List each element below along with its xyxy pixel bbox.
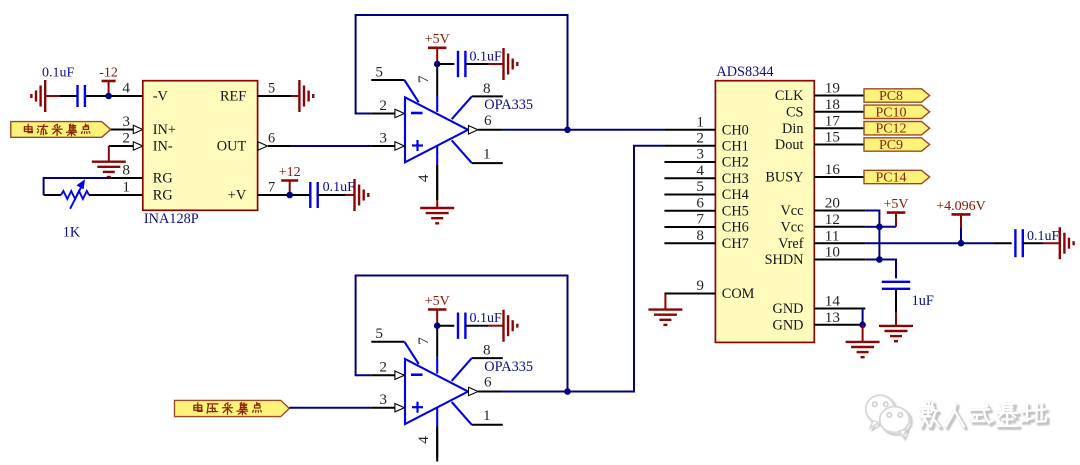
svg-text:1: 1 xyxy=(483,145,491,162)
pin 14 U2 GND xyxy=(814,308,865,310)
svg-text:1K: 1K xyxy=(63,225,81,241)
svg-text:5: 5 xyxy=(268,81,275,97)
svg-text:4: 4 xyxy=(415,436,432,444)
pin 3 arrow IN+ xyxy=(133,125,143,133)
pin 7 U4 V+ xyxy=(436,357,438,373)
svg-text:BUSY: BUSY xyxy=(765,170,803,186)
wire C1 to -12 junction xyxy=(85,95,143,97)
svg-text:4: 4 xyxy=(696,162,704,179)
svg-text:6: 6 xyxy=(484,112,492,129)
svg-text:ADS8344: ADS8344 xyxy=(716,64,773,80)
pin 7 U3 V+ xyxy=(436,96,438,112)
pin 11 U2 Vref xyxy=(814,242,865,244)
junction +5V U4 xyxy=(434,322,441,329)
svg-text:PC8: PC8 xyxy=(879,89,903,104)
ground GND bypass U4 xyxy=(502,310,504,342)
svg-text:OUT: OUT xyxy=(217,139,247,155)
svg-text:RG: RG xyxy=(153,171,173,187)
svg-text:0.1uF: 0.1uF xyxy=(470,50,503,65)
wire GND pin14 down xyxy=(862,309,864,325)
wire cap to ground U3 xyxy=(465,63,488,65)
pin 6 OUT stub and arrow xyxy=(268,145,292,147)
pin 2 U3 inverting input xyxy=(371,113,394,115)
svg-text:4: 4 xyxy=(122,80,130,97)
ground GND bypass U3 xyxy=(502,48,504,80)
ground GND at Vref cap xyxy=(1059,227,1061,259)
ground GND at REF xyxy=(298,80,300,112)
ground GND U3 V- xyxy=(420,207,454,209)
capacitor C6 0.1uF (Vref) xyxy=(1014,229,1016,257)
pin 8 U4 trim xyxy=(472,357,503,359)
pin 7 U2 CH6 xyxy=(664,226,715,228)
svg-text:7: 7 xyxy=(268,180,275,196)
svg-text:IN-: IN- xyxy=(153,139,173,155)
pin 8 U3 trim xyxy=(472,95,503,97)
svg-text:2: 2 xyxy=(379,97,387,114)
wire feedback loop U4 xyxy=(356,276,568,392)
svg-text:CH5: CH5 xyxy=(722,203,749,219)
pin 8 RG stub xyxy=(109,177,143,179)
svg-text:-12: -12 xyxy=(99,65,118,80)
wire IN- to ground xyxy=(109,145,134,147)
svg-text:OPA335: OPA335 xyxy=(484,97,533,113)
pin 2 U2 CH1 xyxy=(664,145,715,147)
svg-text:PC12: PC12 xyxy=(875,122,906,137)
net flag PC14 xyxy=(864,170,930,183)
svg-text:RG: RG xyxy=(153,188,173,204)
junction node -12/-V xyxy=(105,93,112,100)
pin 4 U4 V- xyxy=(436,408,438,427)
wire SHDN to 1uF xyxy=(879,260,896,279)
net flag PC8 xyxy=(864,89,930,102)
svg-text:1: 1 xyxy=(696,113,704,130)
svg-text:19: 19 xyxy=(825,80,840,97)
svg-text:1uF: 1uF xyxy=(912,293,934,309)
ground GND at 1uF xyxy=(879,325,913,327)
pin 20 U2 Vcc xyxy=(814,210,865,212)
pin 7 +V stub xyxy=(258,194,310,196)
svg-text:10: 10 xyxy=(825,244,841,261)
pin 6 U3 output xyxy=(469,126,479,134)
pin 3 U2 CH2 xyxy=(664,161,715,163)
power +5V U4 xyxy=(428,308,447,311)
pin 6 U2 CH5 xyxy=(664,210,715,212)
svg-text:CH3: CH3 xyxy=(722,171,749,187)
wire flag to IN+ xyxy=(111,129,134,131)
svg-text:9: 9 xyxy=(696,277,704,294)
pin 3 U4 non-inverting input xyxy=(371,407,394,409)
capacitor 0.1uF U3 bypass xyxy=(437,63,454,65)
ground GND at COM xyxy=(664,294,666,310)
svg-text:PC14: PC14 xyxy=(875,171,906,186)
svg-text:1: 1 xyxy=(122,179,130,196)
pin 1 RG stub xyxy=(89,194,143,196)
svg-text:12: 12 xyxy=(825,211,840,228)
wire OUT to opamp pin3 xyxy=(292,145,372,147)
junction GND pins xyxy=(859,322,866,329)
pin 12 U2 Vcc xyxy=(814,226,865,228)
svg-text:6: 6 xyxy=(268,131,275,147)
ground GND at pins 13/14 xyxy=(846,341,880,343)
pin 6 U4 output xyxy=(469,387,479,395)
svg-text:COM: COM xyxy=(722,286,755,302)
svg-text:0.1uF: 0.1uF xyxy=(323,180,356,195)
ADC U2 ADS8344 body xyxy=(715,81,814,343)
svg-text:3: 3 xyxy=(379,130,387,147)
svg-text:8: 8 xyxy=(483,342,491,359)
ground GND far-left (0.1uF cap) xyxy=(60,95,77,97)
capacitor C2 0.1uF (INA +V) xyxy=(309,182,311,208)
capacitor C5 1uF xyxy=(882,281,910,283)
svg-text:3: 3 xyxy=(696,146,704,163)
pin 19 U2 CLK xyxy=(814,95,865,97)
junction U3 output/feedback xyxy=(564,127,571,134)
svg-text:Vcc: Vcc xyxy=(780,219,803,235)
svg-text:+V: +V xyxy=(228,188,247,204)
svg-text:+5V: +5V xyxy=(425,32,450,47)
svg-text:OPA335: OPA335 xyxy=(484,359,533,375)
wire U3 pin4 to ground xyxy=(436,165,438,200)
svg-text:CH1: CH1 xyxy=(722,138,749,154)
wire Vref net xyxy=(865,242,995,244)
svg-text:7: 7 xyxy=(415,337,432,345)
net flag PC10 xyxy=(864,105,930,118)
net flag PC9 xyxy=(864,138,930,151)
svg-text:11: 11 xyxy=(825,227,840,244)
net flag 电流采集点 xyxy=(11,122,111,138)
junction +5V U3 xyxy=(434,61,441,68)
svg-text:0.1uF: 0.1uF xyxy=(1027,229,1060,244)
pin 5 U4 trim xyxy=(371,341,404,343)
svg-text:3: 3 xyxy=(122,113,130,130)
svg-text:2: 2 xyxy=(696,129,704,146)
pin 4 U2 CH3 xyxy=(664,177,715,179)
pin 15 U2 Dout xyxy=(814,144,865,146)
wire flag to U4 pin3 xyxy=(289,407,371,409)
pin 16 U2 BUSY xyxy=(814,176,865,178)
svg-text:6: 6 xyxy=(696,194,704,211)
svg-text:0.1uF: 0.1uF xyxy=(470,311,503,326)
svg-text:17: 17 xyxy=(825,112,841,129)
wire Vcc pin12 to rail xyxy=(865,226,879,228)
svg-text:18: 18 xyxy=(825,96,841,113)
svg-text:8: 8 xyxy=(122,162,130,179)
svg-text:IN+: IN+ xyxy=(153,122,176,138)
pin 4 U3 V- xyxy=(436,146,438,165)
svg-text:15: 15 xyxy=(825,129,840,146)
pin 1 U4 trim xyxy=(472,424,503,426)
wire cap to ground U4 xyxy=(465,325,488,327)
pin 18 U2 CS xyxy=(814,111,865,113)
svg-text:Dout: Dout xyxy=(775,137,804,153)
svg-text:1: 1 xyxy=(483,407,491,424)
svg-text:-V: -V xyxy=(153,89,169,105)
svg-text:SHDN: SHDN xyxy=(765,252,804,268)
svg-text:CH6: CH6 xyxy=(722,220,749,236)
pin 1 U3 trim xyxy=(472,162,503,164)
svg-text:GND: GND xyxy=(773,317,804,333)
svg-text:CH2: CH2 xyxy=(722,155,749,171)
pin 5 U2 CH4 xyxy=(664,194,715,196)
svg-text:5: 5 xyxy=(375,325,383,342)
wire U4 output to ADS CH1 xyxy=(503,146,665,392)
pin 5 REF stub xyxy=(258,95,292,97)
wire feedback loop U3 xyxy=(356,15,568,130)
svg-text:REF: REF xyxy=(220,89,246,105)
svg-text:PC9: PC9 xyxy=(879,138,903,153)
pin 17 U2 Din xyxy=(814,127,865,129)
op-amp U3 OPA335 triangle xyxy=(405,97,468,162)
power +5V (ADS) xyxy=(879,226,896,228)
pin 1 U2 CH0 xyxy=(664,129,715,131)
power +4.096V xyxy=(952,213,971,216)
wire potentiometer loop xyxy=(44,178,110,195)
svg-text:INA128P: INA128P xyxy=(144,211,199,227)
svg-text:+5V: +5V xyxy=(883,197,908,212)
junction Vref/+4.096V xyxy=(958,240,965,247)
svg-text:8: 8 xyxy=(483,80,491,97)
svg-text:Din: Din xyxy=(782,121,803,137)
svg-text:6: 6 xyxy=(484,374,492,391)
junction node +V/+12 xyxy=(286,192,293,199)
power +12 xyxy=(281,179,298,182)
svg-text:13: 13 xyxy=(825,309,840,326)
svg-text:Vcc: Vcc xyxy=(780,203,803,219)
pin 2 U4 inverting input xyxy=(371,374,394,376)
svg-text:5: 5 xyxy=(375,63,383,80)
ground GND at IN- xyxy=(92,160,126,162)
pin 2 arrow IN- xyxy=(133,142,143,150)
wire U3 output to ADS CH0 xyxy=(503,129,665,131)
svg-text:3: 3 xyxy=(379,391,387,408)
svg-text:16: 16 xyxy=(825,161,841,178)
pin 13 U2 GND xyxy=(814,324,865,326)
wire SHDN pin10 xyxy=(865,259,879,261)
net flag PC12 xyxy=(864,122,930,135)
wire U4 pin4 down xyxy=(436,427,438,459)
pin 5 U3 trim xyxy=(371,79,404,81)
svg-text:CLK: CLK xyxy=(775,88,804,104)
op-amp U1 INA128P body xyxy=(143,81,258,211)
svg-text:4: 4 xyxy=(415,174,432,182)
net flag 电压采集点 xyxy=(175,400,290,416)
svg-text:PC10: PC10 xyxy=(875,105,906,120)
svg-text:7: 7 xyxy=(415,75,432,83)
capacitor C1 0.1uF (INA -V supply) xyxy=(76,85,78,107)
wire C6 to ground xyxy=(1023,242,1043,244)
svg-text:20: 20 xyxy=(825,195,841,212)
op-amp U4 OPA335 triangle xyxy=(405,359,468,424)
svg-text:8: 8 xyxy=(696,227,704,244)
svg-text:7: 7 xyxy=(696,211,704,228)
svg-text:CS: CS xyxy=(786,104,804,120)
pin 10 U2 SHDN xyxy=(814,259,865,261)
pin 3 U3 non-inverting input xyxy=(371,145,394,147)
ground GND at C2 xyxy=(353,179,355,211)
wire C2 to ground xyxy=(318,194,345,196)
power +5V U3 xyxy=(428,46,447,49)
wire GND13 to ground xyxy=(862,325,864,342)
wire 1uF to ground xyxy=(895,289,897,312)
svg-text:14: 14 xyxy=(825,293,841,310)
junction Vcc pin12 xyxy=(876,224,883,231)
junction U4 output/feedback xyxy=(564,388,571,395)
svg-text:CH4: CH4 xyxy=(722,187,749,203)
svg-text:5: 5 xyxy=(696,178,704,195)
svg-text:+12: +12 xyxy=(279,165,301,180)
svg-text:CH0: CH0 xyxy=(722,122,749,138)
junction SHDN pin10 xyxy=(876,256,883,263)
svg-text:CH7: CH7 xyxy=(722,236,749,252)
capacitor 0.1uF U4 bypass xyxy=(437,325,454,327)
svg-text:2: 2 xyxy=(379,359,387,376)
svg-text:GND: GND xyxy=(773,301,804,317)
svg-text:2: 2 xyxy=(122,130,130,147)
svg-text:0.1uF: 0.1uF xyxy=(42,66,75,81)
svg-text:+5V: +5V xyxy=(425,294,450,309)
pin 9 U2 COM xyxy=(664,293,715,295)
resistor R1 1K potentiometer xyxy=(61,191,89,199)
wire Vcc pin20 to +5V rail xyxy=(865,211,879,260)
power -12 xyxy=(102,80,116,83)
svg-text:Vref: Vref xyxy=(778,236,804,252)
svg-text:+4.096V: +4.096V xyxy=(936,199,986,214)
pin 8 U2 CH7 xyxy=(664,242,715,244)
